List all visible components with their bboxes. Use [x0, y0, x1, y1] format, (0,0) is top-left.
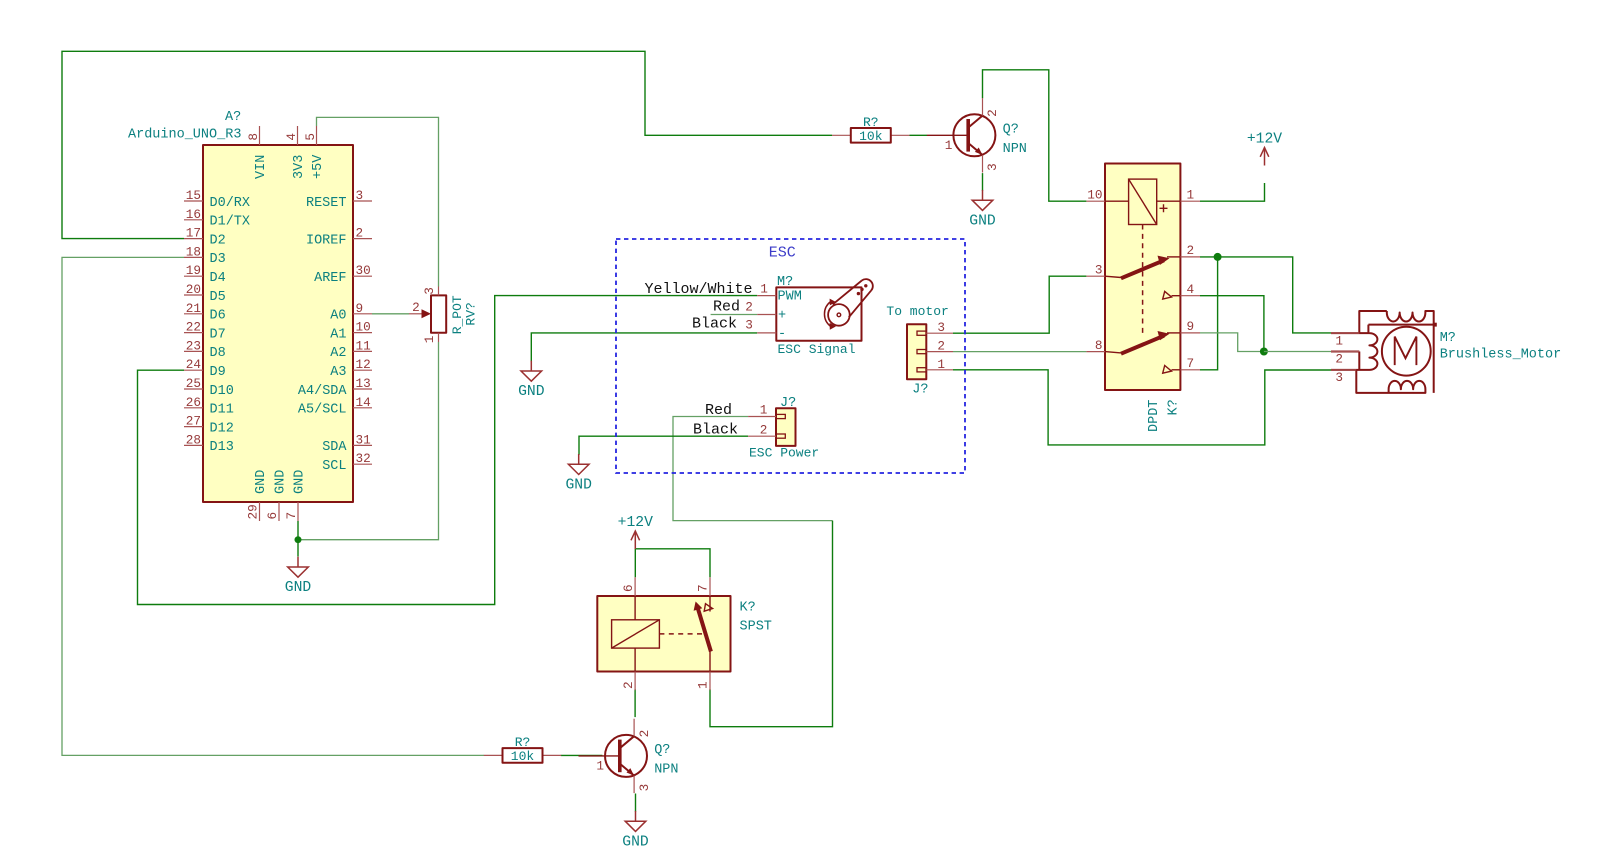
svg-text:28: 28: [186, 432, 201, 447]
wire +12V branch to K2 pin7: [635, 549, 710, 578]
svg-text:10k: 10k: [511, 749, 535, 764]
svg-text:3: 3: [937, 320, 945, 335]
relay K1 DPDT body: [1086, 164, 1200, 433]
svg-text:A1: A1: [330, 327, 346, 342]
svg-text:1: 1: [760, 403, 768, 418]
ground symbol Arduino GND: [285, 557, 312, 597]
junction dot motor net: [1260, 348, 1268, 356]
svg-text:18: 18: [186, 244, 201, 259]
svg-text:2: 2: [1335, 352, 1343, 367]
svg-text:VIN: VIN: [254, 155, 269, 179]
wire J1 pin2 to K1 pin8: [953, 351, 1086, 353]
svg-text:2: 2: [760, 422, 768, 437]
svg-text:SPST: SPST: [740, 619, 772, 634]
svg-text:AREF: AREF: [314, 271, 346, 286]
svg-text:19: 19: [186, 263, 201, 278]
svg-text:To motor: To motor: [886, 304, 948, 319]
svg-text:Black: Black: [692, 315, 737, 332]
svg-text:21: 21: [186, 301, 201, 316]
ground symbol Q2 emitter GND: [622, 811, 649, 851]
svg-text:5: 5: [303, 133, 318, 141]
svg-text:ESC Signal: ESC Signal: [778, 342, 856, 357]
wire Arduino GND pin7 to ground: [297, 521, 299, 557]
svg-text:2: 2: [637, 730, 652, 738]
wire K1 pin1 to +12V: [1200, 183, 1265, 201]
svg-text:32: 32: [356, 451, 371, 466]
svg-text:2: 2: [745, 299, 753, 314]
K2 coil: [612, 620, 660, 648]
svg-text:J?: J?: [780, 396, 796, 411]
ground symbol ESC signal black GND: [518, 361, 545, 401]
svg-text:PWM: PWM: [778, 290, 802, 305]
svg-text:7: 7: [1187, 356, 1195, 371]
svg-text:4: 4: [284, 133, 299, 141]
svg-text:+: +: [778, 309, 786, 324]
svg-text:1: 1: [696, 681, 711, 689]
svg-text:4: 4: [1187, 282, 1195, 297]
svg-text:15: 15: [186, 188, 201, 203]
svg-text:3: 3: [1335, 370, 1343, 385]
svg-text:8: 8: [246, 133, 261, 141]
svg-text:D4: D4: [210, 271, 226, 286]
ESC Signal servo M? body: [745, 275, 873, 357]
svg-text:3: 3: [356, 188, 364, 203]
svg-text:7: 7: [696, 584, 711, 592]
svg-text:A0: A0: [330, 309, 346, 324]
svg-text:Red: Red: [713, 299, 740, 316]
junction dot K1 pin2: [1214, 253, 1222, 261]
wire Q1 collector to K1 pin10: [983, 70, 1087, 201]
svg-text:D6: D6: [210, 309, 226, 324]
wire net Red stub at ESC signal pin2: [711, 314, 758, 316]
svg-text:K?: K?: [740, 600, 756, 615]
svg-text:R?: R?: [863, 115, 879, 130]
wire R2 right to Q2 base: [561, 754, 603, 756]
svg-text:2: 2: [1187, 243, 1195, 258]
svg-text:GND: GND: [622, 834, 649, 850]
resistor R1 10k: [832, 115, 910, 144]
svg-text:A3: A3: [330, 365, 346, 380]
K1 coil: [1129, 179, 1157, 224]
ground symbol Q1 emitter GND: [969, 190, 996, 230]
svg-text:D5: D5: [210, 290, 226, 305]
power symbol +12V relay K2: [618, 515, 653, 549]
svg-text:D11: D11: [210, 403, 234, 418]
svg-text:1: 1: [596, 758, 604, 773]
wire net Black: ESC signal pin3 to ground: [531, 333, 757, 362]
wire junction to M1 pin2: [1264, 351, 1331, 353]
wire Q1 emitter to ground: [982, 173, 984, 191]
svg-text:31: 31: [356, 432, 371, 447]
svg-text:D8: D8: [210, 346, 226, 361]
wire net D2: R1 right to Q1 base: [910, 134, 928, 136]
K1 switch pole A: [1105, 276, 1121, 277]
wire RV1 pin1 down to GND junction: [298, 342, 439, 540]
wire K2 pin2 to Q2 collector: [634, 689, 636, 717]
svg-text:7: 7: [284, 512, 299, 520]
svg-text:16: 16: [186, 207, 201, 222]
svg-text:3: 3: [745, 318, 753, 333]
ESC Power connector J?: [748, 396, 819, 461]
svg-text:GND: GND: [254, 470, 269, 494]
transistor Q2 NPN: [579, 719, 679, 793]
svg-text:27: 27: [186, 414, 201, 429]
K2 switch: [697, 607, 711, 652]
svg-text:26: 26: [186, 395, 201, 410]
svg-text:9: 9: [356, 301, 364, 316]
svg-text:3: 3: [985, 163, 1000, 171]
svg-text:A?: A?: [225, 110, 241, 125]
svg-text:M?: M?: [777, 275, 793, 290]
svg-text:A5/SCL: A5/SCL: [298, 403, 347, 418]
wire +12V to K2 pin6: [634, 549, 636, 578]
svg-text:3: 3: [422, 287, 437, 295]
svg-text:GND: GND: [293, 470, 308, 494]
wire K1 pin2 to M1 pin1: [1200, 257, 1331, 333]
svg-text:29: 29: [246, 504, 261, 519]
svg-text:GND: GND: [518, 384, 545, 400]
Arduino left pins D0-D13 with numbers 15-28: [184, 188, 250, 455]
svg-text:25: 25: [186, 376, 201, 391]
svg-text:2: 2: [412, 300, 420, 315]
svg-text:Red: Red: [705, 402, 732, 419]
svg-text:+12V: +12V: [1247, 132, 1282, 148]
svg-text:D3: D3: [210, 252, 226, 267]
ground symbol ESC power black GND: [565, 454, 592, 494]
wire net Red power: ESC power pin1 loop to K2 pin1: [673, 417, 833, 521]
svg-text:ESC Power: ESC Power: [749, 446, 819, 461]
svg-text:14: 14: [356, 395, 371, 410]
svg-text:IOREF: IOREF: [306, 233, 347, 248]
wire net D3: Arduino D3 down left side to R2 left: [62, 257, 484, 755]
svg-text:GND: GND: [969, 213, 996, 229]
Arduino bottom pins GND 29 6 7: [246, 470, 308, 521]
svg-text:D2: D2: [210, 233, 226, 248]
svg-text:NPN: NPN: [654, 763, 678, 778]
svg-text:NPN: NPN: [1003, 142, 1027, 157]
svg-text:J?: J?: [912, 383, 928, 398]
svg-text:1: 1: [945, 138, 953, 153]
svg-text:1: 1: [1335, 333, 1343, 348]
svg-text:2: 2: [937, 339, 945, 354]
wire net D9/PWM: Arduino D9 loop to ESC signal pin1: [138, 296, 758, 605]
svg-text:10k: 10k: [859, 129, 883, 144]
svg-text:M?: M?: [1440, 331, 1456, 346]
junction dot Arduino GND: [295, 536, 302, 543]
K2 pin stubs: [634, 577, 636, 596]
svg-text:20: 20: [186, 282, 201, 297]
potentiometer RV? R_POT: [409, 287, 479, 344]
svg-text:1: 1: [1187, 188, 1195, 203]
svg-text:Yellow/White: Yellow/White: [644, 281, 752, 298]
svg-text:24: 24: [186, 357, 201, 372]
wire net +5V: Arduino pin5 to RV1 pin3: [317, 117, 439, 286]
svg-text:10: 10: [356, 320, 371, 335]
svg-text:1: 1: [422, 336, 437, 344]
svg-text:23: 23: [186, 338, 201, 353]
svg-text:2: 2: [621, 681, 636, 689]
ESC block dashed outline: [616, 239, 965, 473]
svg-text:+5V: +5V: [311, 154, 326, 179]
K1 switch pole B: [1105, 352, 1121, 353]
K1 pin stubs: [1086, 200, 1105, 202]
svg-text:RESET: RESET: [306, 196, 347, 211]
svg-text:D0/RX: D0/RX: [210, 196, 251, 211]
svg-text:D10: D10: [210, 384, 234, 399]
svg-text:22: 22: [186, 320, 201, 335]
svg-text:8: 8: [1095, 338, 1103, 353]
wire Q2 emitter to ground: [635, 794, 637, 812]
wire J1 pin3 to K1 pin3: [953, 276, 1086, 333]
svg-text:30: 30: [356, 263, 371, 278]
Arduino UNO R3 A? body: [203, 145, 353, 502]
transistor Q1 NPN: [927, 98, 1027, 172]
svg-text:GND: GND: [285, 580, 312, 596]
svg-text:+12V: +12V: [618, 515, 653, 531]
svg-text:6: 6: [621, 584, 636, 592]
svg-text:K?: K?: [1167, 399, 1182, 415]
To motor connector J?: [886, 304, 953, 398]
wire J1 pin1 loop to M1 pin3: [953, 370, 1331, 445]
svg-text:A4/SDA: A4/SDA: [298, 384, 348, 399]
svg-text:Q?: Q?: [654, 743, 670, 758]
svg-text:D7: D7: [210, 327, 226, 342]
svg-text:3: 3: [1095, 263, 1103, 278]
svg-text:2: 2: [356, 226, 364, 241]
svg-text:Q?: Q?: [1003, 122, 1019, 137]
K2 dashed link: [659, 633, 702, 635]
svg-text:DPDT: DPDT: [1147, 400, 1162, 432]
svg-text:1: 1: [937, 357, 945, 372]
wire K1 pin4 down to junction: [1200, 296, 1264, 352]
svg-text:10: 10: [1087, 188, 1102, 203]
svg-text:SDA: SDA: [322, 440, 347, 455]
wire net D2: Arduino D2 to top rail to R1 left: [62, 51, 832, 238]
svg-text:R?: R?: [515, 735, 531, 750]
motor M? Brushless_Motor: [1331, 311, 1561, 393]
svg-text:D1/TX: D1/TX: [210, 215, 251, 230]
svg-text:6: 6: [265, 512, 280, 520]
Arduino top pins VIN 3V3 +5V: [246, 126, 326, 179]
svg-text:SCL: SCL: [322, 459, 346, 474]
svg-text:9: 9: [1187, 319, 1195, 334]
svg-text:D9: D9: [210, 365, 226, 380]
svg-text:ESC: ESC: [769, 245, 796, 262]
svg-text:3V3: 3V3: [292, 155, 307, 179]
svg-text:-: -: [778, 327, 786, 342]
svg-text:D12: D12: [210, 421, 234, 436]
K1 coil dashed link: [1142, 225, 1144, 337]
svg-text:11: 11: [356, 338, 371, 353]
svg-text:3: 3: [637, 784, 652, 792]
svg-text:Black: Black: [693, 422, 738, 439]
svg-text:1: 1: [760, 282, 768, 297]
wire K1 pin2 junction down to K1 pin7: [1200, 257, 1218, 370]
wire K1 pin9 jog to junction: [1200, 333, 1264, 352]
svg-text:13: 13: [356, 376, 371, 391]
svg-text:Brushless_Motor: Brushless_Motor: [1440, 348, 1562, 363]
relay K2 SPST body: [597, 577, 772, 690]
svg-text:D13: D13: [210, 440, 234, 455]
svg-text:GND: GND: [565, 478, 592, 494]
Arduino right pins RESET..SCL: [298, 188, 372, 474]
svg-text:RV?: RV?: [464, 302, 479, 325]
wire net A0 to RV1 pin2: [372, 313, 409, 315]
svg-text:12: 12: [356, 357, 371, 372]
svg-text:17: 17: [186, 226, 201, 241]
svg-text:Arduino_UNO_R3: Arduino_UNO_R3: [128, 128, 241, 143]
resistor R2 10k: [484, 735, 561, 764]
svg-text:A2: A2: [330, 346, 346, 361]
wire net Black power: ESC power pin2 to ground: [579, 436, 748, 455]
svg-text:GND: GND: [274, 470, 289, 494]
svg-text:2: 2: [985, 109, 1000, 117]
power symbol +12V relay K1: [1247, 132, 1282, 166]
